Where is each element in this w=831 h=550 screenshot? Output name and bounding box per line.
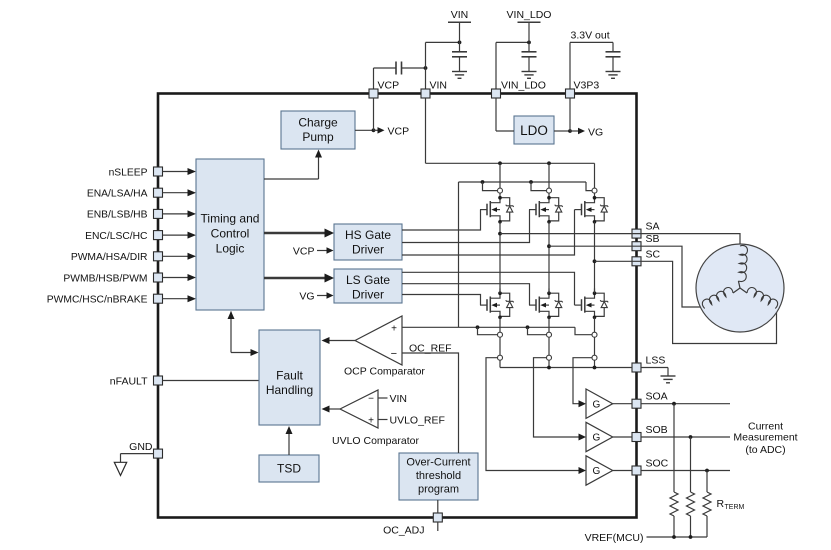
svg-text:ENB/LSB/HB: ENB/LSB/HB xyxy=(87,210,148,221)
svg-text:OC_ADJ: OC_ADJ xyxy=(383,525,424,537)
svg-text:VIN: VIN xyxy=(390,393,408,405)
svg-text:V3P3: V3P3 xyxy=(574,80,600,92)
svg-text:+: + xyxy=(391,324,397,335)
svg-text:threshold: threshold xyxy=(416,470,461,482)
svg-text:OC_REF: OC_REF xyxy=(409,343,452,355)
svg-text:SOA: SOA xyxy=(646,391,668,403)
svg-text:LDO: LDO xyxy=(520,123,548,138)
svg-text:−: − xyxy=(368,394,374,405)
svg-text:Measurement: Measurement xyxy=(733,432,797,444)
svg-text:UVLO Comparator: UVLO Comparator xyxy=(332,435,419,447)
svg-text:Driver: Driver xyxy=(352,288,384,302)
svg-text:nFAULT: nFAULT xyxy=(110,375,148,387)
svg-text:TSD: TSD xyxy=(277,462,301,476)
svg-text:Pump: Pump xyxy=(302,130,334,144)
svg-text:LS Gate: LS Gate xyxy=(346,273,390,287)
svg-text:Handling: Handling xyxy=(266,383,313,397)
svg-text:G: G xyxy=(593,399,601,410)
svg-text:Driver: Driver xyxy=(352,243,384,257)
svg-text:VG: VG xyxy=(588,127,603,139)
svg-text:PWMB/HSB/PWM: PWMB/HSB/PWM xyxy=(63,273,147,284)
svg-text:program: program xyxy=(418,484,459,496)
svg-text:R: R xyxy=(717,498,725,510)
svg-text:−: − xyxy=(391,348,397,360)
svg-text:G: G xyxy=(593,466,601,477)
svg-text:VIN: VIN xyxy=(430,80,448,92)
svg-text:(to ADC): (to ADC) xyxy=(745,444,785,456)
svg-text:G: G xyxy=(593,433,601,444)
svg-text:OCP Comparator: OCP Comparator xyxy=(344,366,425,378)
svg-text:Logic: Logic xyxy=(216,242,245,256)
svg-text:VIN_LDO: VIN_LDO xyxy=(507,9,552,21)
svg-text:3.3V out: 3.3V out xyxy=(571,30,610,42)
svg-text:HS Gate: HS Gate xyxy=(345,228,391,242)
svg-text:SB: SB xyxy=(646,233,660,245)
svg-text:PWMC/HSC/nBRAKE: PWMC/HSC/nBRAKE xyxy=(47,295,148,306)
svg-text:+: + xyxy=(368,416,374,427)
svg-text:VG: VG xyxy=(299,291,314,303)
svg-text:Charge: Charge xyxy=(298,116,338,130)
svg-text:PWMA/HSA/DIR: PWMA/HSA/DIR xyxy=(71,252,148,263)
svg-text:SC: SC xyxy=(646,248,661,260)
svg-text:VREF(MCU): VREF(MCU) xyxy=(585,532,644,544)
svg-text:Timing and: Timing and xyxy=(201,212,260,226)
svg-text:SOC: SOC xyxy=(646,458,669,470)
svg-text:VIN: VIN xyxy=(451,9,469,21)
svg-text:TERM: TERM xyxy=(725,504,745,511)
svg-text:Fault: Fault xyxy=(276,369,303,383)
svg-text:Control: Control xyxy=(211,227,250,241)
svg-text:SOB: SOB xyxy=(646,424,668,436)
svg-text:VCP: VCP xyxy=(293,246,315,258)
svg-text:UVLO_REF: UVLO_REF xyxy=(390,415,445,427)
svg-text:SA: SA xyxy=(646,221,660,233)
svg-text:LSS: LSS xyxy=(646,355,666,367)
svg-text:GND: GND xyxy=(129,441,153,453)
svg-text:Over-Current: Over-Current xyxy=(406,457,470,469)
svg-text:VCP: VCP xyxy=(378,80,400,92)
svg-text:VCP: VCP xyxy=(388,126,410,138)
svg-text:VIN_LDO: VIN_LDO xyxy=(501,80,546,92)
svg-text:nSLEEP: nSLEEP xyxy=(109,167,148,178)
svg-text:ENC/LSC/HC: ENC/LSC/HC xyxy=(85,231,148,242)
svg-text:ENA/LSA/HA: ENA/LSA/HA xyxy=(87,189,148,200)
